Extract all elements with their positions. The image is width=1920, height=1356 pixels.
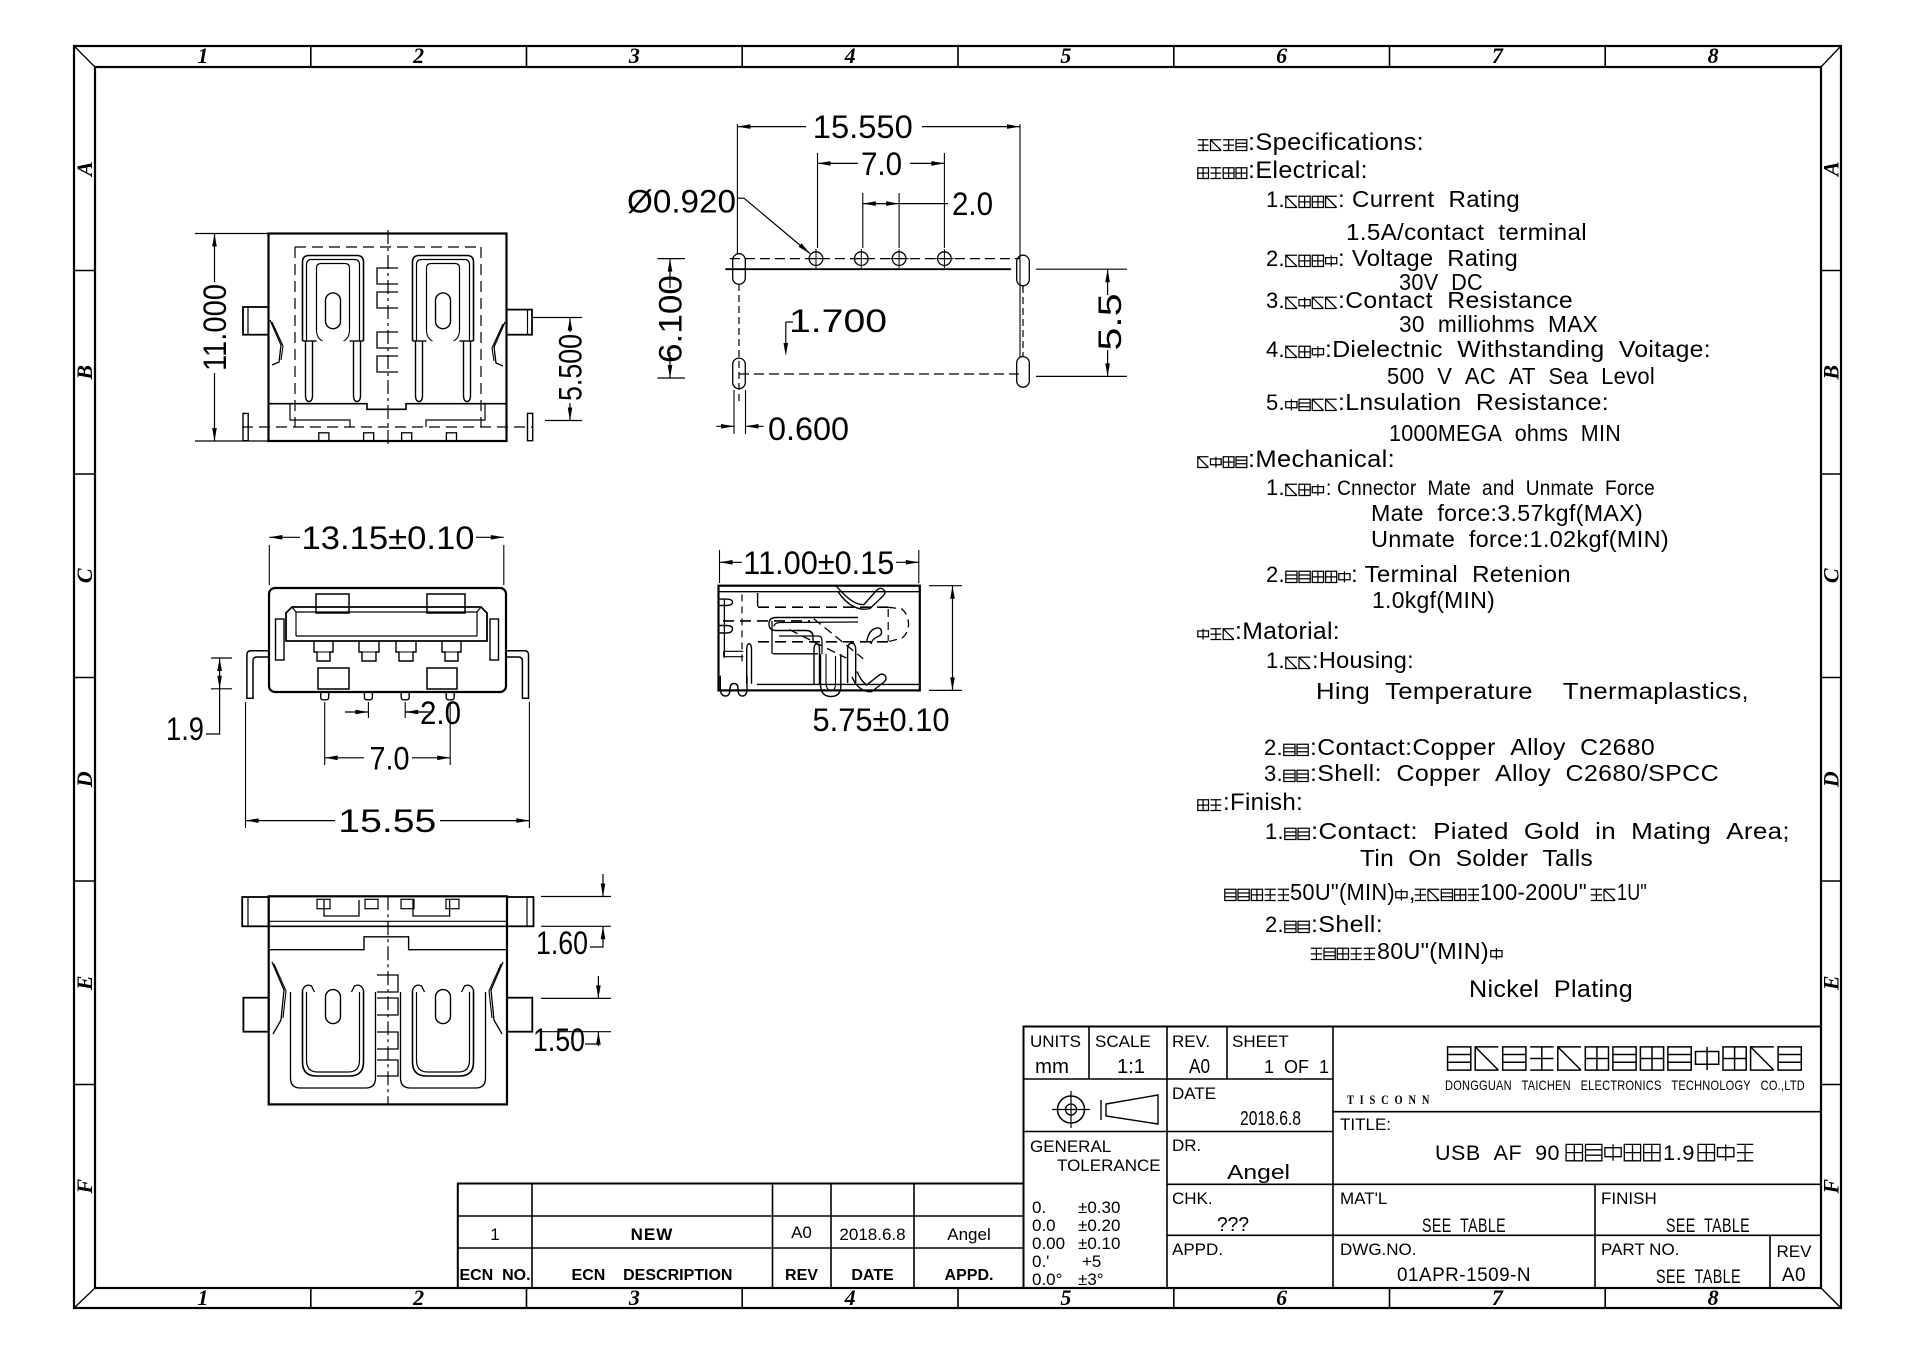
svg-text:6.100: 6.100 xyxy=(653,275,689,363)
svg-text::Contact:Copper Alloy C2680: :Contact:Copper Alloy C2680 xyxy=(1310,734,1655,760)
svg-text:30 milliohms MAX: 30 milliohms MAX xyxy=(1399,311,1598,337)
svg-text:2: 2 xyxy=(412,43,424,68)
svg-text:Angel: Angel xyxy=(1227,1162,1290,1184)
svg-text:Angel: Angel xyxy=(947,1225,990,1244)
svg-text:0.0: 0.0 xyxy=(1032,1216,1056,1235)
svg-text:6: 6 xyxy=(1276,43,1287,68)
svg-text:11.000: 11.000 xyxy=(197,284,233,371)
svg-text:mm: mm xyxy=(1035,1056,1069,1078)
svg-text::Shell: Copper Alloy C2680/: :Shell: Copper Alloy C2680/SPCC xyxy=(1310,760,1719,786)
svg-text:1.: 1. xyxy=(1266,187,1285,212)
svg-text:F: F xyxy=(1818,1179,1843,1195)
svg-text:2018.6.8: 2018.6.8 xyxy=(1240,1108,1301,1130)
svg-text:FINISH: FINISH xyxy=(1601,1189,1657,1208)
svg-text:2.: 2. xyxy=(1266,562,1285,587)
svg-text:: Current Rating: : Current Rating xyxy=(1338,186,1520,212)
svg-text:2.: 2. xyxy=(1265,912,1284,937)
svg-text:A0: A0 xyxy=(791,1223,812,1242)
svg-text:APPD.: APPD. xyxy=(1172,1240,1223,1259)
svg-text:Tin On Solder Talls: Tin On Solder Talls xyxy=(1360,845,1593,871)
svg-text:DONGGUAN TAICHEN ELECTRONICS: DONGGUAN TAICHEN ELECTRONICS TECHNOLOGY … xyxy=(1445,1077,1805,1093)
svg-text:1: 1 xyxy=(490,1225,499,1244)
svg-text:4.: 4. xyxy=(1266,337,1285,362)
svg-text::Finish:: :Finish: xyxy=(1223,789,1303,816)
svg-text:0.600: 0.600 xyxy=(768,411,849,447)
svg-text:±0.20: ±0.20 xyxy=(1078,1216,1120,1235)
svg-text:GENERAL: GENERAL xyxy=(1030,1137,1111,1156)
svg-text:1: 1 xyxy=(197,43,208,68)
svg-text:1.9: 1.9 xyxy=(166,711,204,747)
svg-text:1.: 1. xyxy=(1266,648,1285,673)
svg-text:B: B xyxy=(72,365,97,381)
svg-text:1.: 1. xyxy=(1265,819,1284,844)
svg-text:1.50: 1.50 xyxy=(533,1022,585,1058)
svg-text:80U"(MIN): 80U"(MIN) xyxy=(1377,938,1489,964)
svg-text:PART NO.: PART NO. xyxy=(1601,1240,1679,1259)
svg-text:2.: 2. xyxy=(1264,735,1283,760)
svg-text:2.0: 2.0 xyxy=(420,695,461,731)
svg-text:: Cnnector Mate and Unmate: : Cnnector Mate and Unmate Force xyxy=(1326,477,1655,500)
svg-text:1U": 1U" xyxy=(1617,879,1647,905)
svg-text:1.: 1. xyxy=(1266,475,1285,500)
svg-text:1: 1 xyxy=(197,1285,208,1310)
svg-text:01APR-1509-N: 01APR-1509-N xyxy=(1397,1265,1531,1286)
svg-text:±0.10: ±0.10 xyxy=(1078,1234,1120,1253)
svg-text:A: A xyxy=(72,161,97,178)
svg-text:Nickel Plating: Nickel Plating xyxy=(1469,976,1633,1003)
svg-text:E: E xyxy=(1819,975,1844,991)
svg-text:0.00: 0.00 xyxy=(1032,1234,1065,1253)
svg-text:TOLERANCE: TOLERANCE xyxy=(1057,1156,1161,1175)
svg-text:0.': 0.' xyxy=(1032,1252,1049,1271)
svg-text:50U"(MIN): 50U"(MIN) xyxy=(1290,879,1395,905)
svg-text::Dielectnic Withstanding Voi: :Dielectnic Withstanding Voitage: xyxy=(1325,336,1711,362)
svg-text:DATE: DATE xyxy=(851,1267,894,1284)
svg-text:Ø0.920: Ø0.920 xyxy=(627,184,736,220)
svg-text:D: D xyxy=(1818,771,1843,788)
svg-text:+5: +5 xyxy=(1082,1252,1101,1271)
svg-text:3.: 3. xyxy=(1264,761,1283,786)
svg-text:1.60: 1.60 xyxy=(536,925,588,961)
svg-text:B: B xyxy=(1818,365,1843,381)
svg-text:NEW: NEW xyxy=(631,1225,674,1244)
svg-text:1000MEGA ohms MIN: 1000MEGA ohms MIN xyxy=(1389,420,1621,446)
svg-text:???: ??? xyxy=(1217,1214,1249,1236)
svg-text:A0: A0 xyxy=(1782,1265,1806,1286)
svg-text:5.5: 5.5 xyxy=(1092,294,1128,351)
svg-text:2018.6.8: 2018.6.8 xyxy=(839,1225,905,1244)
svg-text:,: , xyxy=(1409,879,1416,905)
svg-text::Mechanical:: :Mechanical: xyxy=(1248,446,1395,473)
svg-text:D: D xyxy=(72,771,97,788)
svg-text:15.55: 15.55 xyxy=(338,803,436,839)
svg-text:CHK.: CHK. xyxy=(1172,1189,1213,1208)
svg-text:REV: REV xyxy=(1777,1242,1813,1261)
svg-text::Specifications:: :Specifications: xyxy=(1248,129,1424,156)
svg-text:SEE TABLE: SEE TABLE xyxy=(1656,1267,1741,1288)
svg-text:SCALE: SCALE xyxy=(1095,1032,1151,1051)
svg-text:11.00±0.15: 11.00±0.15 xyxy=(743,545,894,581)
svg-text:15.550: 15.550 xyxy=(813,109,913,145)
svg-text:5.500: 5.500 xyxy=(553,334,589,401)
svg-text:1.700: 1.700 xyxy=(789,303,887,339)
svg-text::Electrical:: :Electrical: xyxy=(1248,157,1368,184)
svg-text:UNITS: UNITS xyxy=(1030,1032,1081,1051)
svg-text:7: 7 xyxy=(1492,43,1504,68)
svg-text:1:1: 1:1 xyxy=(1117,1056,1145,1078)
svg-text:TITLE:: TITLE: xyxy=(1340,1115,1391,1134)
svg-text:REV: REV xyxy=(785,1267,818,1284)
svg-text:1.5A/contact terminal: 1.5A/contact terminal xyxy=(1346,219,1587,245)
svg-text:: Terminal Retenion: : Terminal Retenion xyxy=(1351,561,1571,587)
svg-text::Housing:: :Housing: xyxy=(1312,647,1414,673)
svg-text:8: 8 xyxy=(1708,43,1719,68)
svg-text:4: 4 xyxy=(844,43,856,68)
svg-text:13.15±0.10: 13.15±0.10 xyxy=(302,520,475,556)
svg-text:5.: 5. xyxy=(1266,390,1285,415)
svg-text:1 OF 1: 1 OF 1 xyxy=(1264,1057,1329,1077)
svg-text:SHEET: SHEET xyxy=(1232,1032,1289,1051)
svg-text::Lnsulation Resistance:: :Lnsulation Resistance: xyxy=(1338,389,1609,415)
svg-text::Contact Resistance: :Contact Resistance xyxy=(1338,287,1573,313)
svg-text:1.9: 1.9 xyxy=(1663,1142,1695,1165)
svg-text:A0: A0 xyxy=(1189,1056,1210,1078)
svg-text:DWG.NO.: DWG.NO. xyxy=(1340,1240,1417,1259)
svg-text:E: E xyxy=(72,975,97,991)
svg-text:±3°: ±3° xyxy=(1078,1270,1104,1289)
svg-text::Matorial:: :Matorial: xyxy=(1235,618,1340,645)
svg-text:7.0: 7.0 xyxy=(861,146,902,182)
svg-text:0.0°: 0.0° xyxy=(1032,1270,1062,1289)
svg-text:5.75±0.10: 5.75±0.10 xyxy=(813,702,950,738)
svg-text:2.0: 2.0 xyxy=(952,186,993,222)
svg-text:2: 2 xyxy=(412,1285,424,1310)
svg-text:Unmate force:1.02kgf(MIN): Unmate force:1.02kgf(MIN) xyxy=(1371,526,1669,552)
svg-text::Shell:: :Shell: xyxy=(1311,911,1383,937)
svg-text:F: F xyxy=(72,1179,97,1195)
svg-text:T I S C O N N: T I S C O N N xyxy=(1347,1092,1431,1107)
svg-text:SEE TABLE: SEE TABLE xyxy=(1422,1216,1506,1237)
svg-text:±0.30: ±0.30 xyxy=(1078,1198,1120,1217)
svg-text:REV.: REV. xyxy=(1172,1032,1210,1051)
svg-text:0.: 0. xyxy=(1032,1198,1046,1217)
svg-text:500 V AC AT Sea Levol: 500 V AC AT Sea Levol xyxy=(1387,363,1655,389)
svg-text:2.: 2. xyxy=(1266,246,1285,271)
svg-text:Hing Temperature Tnermapla: Hing Temperature Tnermaplastics, xyxy=(1316,678,1749,704)
svg-text:Mate force:3.57kgf(MAX): Mate force:3.57kgf(MAX) xyxy=(1371,500,1643,526)
svg-text:3: 3 xyxy=(628,43,640,68)
svg-text:DR.: DR. xyxy=(1172,1136,1201,1155)
svg-text:ECN DESCRIPTION: ECN DESCRIPTION xyxy=(572,1267,733,1284)
svg-text:C: C xyxy=(72,568,97,583)
svg-text:7.0: 7.0 xyxy=(370,740,410,776)
svg-text:100-200U": 100-200U" xyxy=(1480,879,1587,905)
svg-text::Contact: Piated Gold in M: :Contact: Piated Gold in Mating Area; xyxy=(1311,818,1790,844)
svg-text:3.: 3. xyxy=(1266,288,1285,313)
svg-text:1.0kgf(MIN): 1.0kgf(MIN) xyxy=(1372,587,1495,613)
svg-text:5: 5 xyxy=(1060,43,1071,68)
svg-text:MAT'L: MAT'L xyxy=(1340,1189,1387,1208)
svg-text:: Voltage Rating: : Voltage Rating xyxy=(1338,245,1518,271)
svg-text:APPD.: APPD. xyxy=(945,1267,994,1284)
svg-text:A: A xyxy=(1819,161,1844,178)
svg-text:DATE: DATE xyxy=(1172,1084,1216,1103)
svg-text:C: C xyxy=(1819,568,1844,583)
svg-text:SEE TABLE: SEE TABLE xyxy=(1666,1216,1750,1237)
svg-text:ECN NO.: ECN NO. xyxy=(459,1267,530,1284)
svg-text:USB AF 90: USB AF 90 xyxy=(1435,1142,1560,1165)
